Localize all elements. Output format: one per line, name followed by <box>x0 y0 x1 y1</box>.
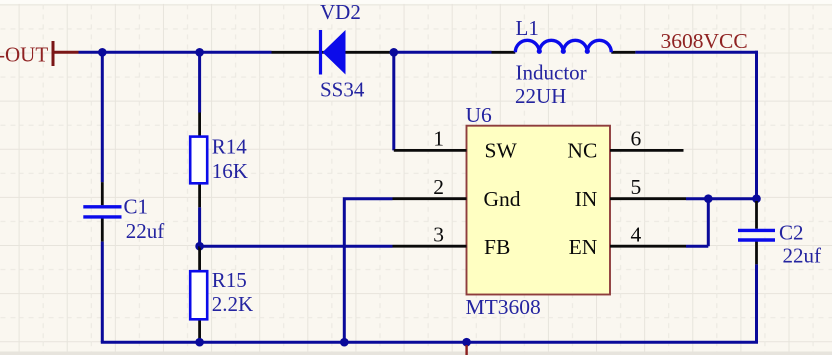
wire bottom rail <box>102 341 756 343</box>
diode VD2 cathode bar <box>319 30 322 75</box>
svg-text:L1: L1 <box>516 16 539 40</box>
svg-text:2: 2 <box>433 175 444 199</box>
inductor L1 pins (black) <box>492 51 636 54</box>
inductor L1 coil <box>515 40 611 52</box>
svg-text:R15: R15 <box>212 268 247 292</box>
node top junction (R14 branch) <box>195 48 204 57</box>
node Gnd bottom junction <box>340 338 349 347</box>
sheet bottom edge strip <box>0 352 832 355</box>
svg-text:R14: R14 <box>212 134 248 158</box>
pin 1 wire (SW, black) <box>394 149 467 152</box>
capacitor C1 plates <box>83 207 121 217</box>
wire FB: node to pin3 <box>200 245 393 248</box>
wire IN: pin5 to right vertical <box>686 197 757 200</box>
svg-text:VD2: VD2 <box>320 0 361 24</box>
wire right vertical: corner to IN node <box>755 51 758 199</box>
resistor R15 pins (black) <box>198 246 201 343</box>
svg-text:MT3608: MT3608 <box>466 295 541 319</box>
node ground tap junction <box>462 338 471 347</box>
svg-text:3: 3 <box>433 223 444 247</box>
svg-text:1: 1 <box>433 127 444 151</box>
wire SW vertical: diode node to pin1 <box>392 52 395 150</box>
node IN-VCC junction <box>752 194 761 203</box>
pin 3 wire (FB, black) <box>393 245 467 248</box>
svg-text:Inductor: Inductor <box>516 60 587 84</box>
IC U6 body <box>467 126 611 295</box>
svg-text:SS34: SS34 <box>320 77 365 101</box>
svg-text:22uf: 22uf <box>783 243 822 267</box>
svg-text:22UH: 22UH <box>515 84 566 108</box>
svg-text:C2: C2 <box>779 221 804 245</box>
inductor coil joints <box>537 49 542 54</box>
svg-text:C1: C1 <box>124 195 149 219</box>
capacitor C2 pins (black) <box>755 201 758 264</box>
pin 5 wire (IN, black) <box>610 197 686 200</box>
wire C1 branch lower <box>101 242 104 343</box>
wire C2 lower to bottom <box>755 264 758 342</box>
svg-text:-OUT: -OUT <box>0 43 48 67</box>
wire EN: pin4 to IN node <box>686 199 708 247</box>
pin 2 wire (Gnd, black) <box>393 197 467 200</box>
node R15 bottom junction <box>195 338 204 347</box>
svg-text:4: 4 <box>631 223 642 247</box>
resistor R14 pins (black) <box>198 113 201 208</box>
capacitor C1 pins (black) <box>101 182 104 242</box>
svg-text:16K: 16K <box>212 159 248 183</box>
node top-left junction (C1 branch) <box>98 48 107 57</box>
svg-text:22uf: 22uf <box>126 219 165 243</box>
node diode-SW junction <box>390 48 399 57</box>
svg-text:3608VCC: 3608VCC <box>661 29 748 53</box>
node FB junction <box>195 242 204 251</box>
wire Gnd: corner to pin2 <box>344 199 392 343</box>
svg-text:2.2K: 2.2K <box>212 292 253 316</box>
svg-text:5: 5 <box>631 175 642 199</box>
capacitor C2 plates <box>738 230 775 240</box>
svg-text:IN: IN <box>575 187 598 211</box>
svg-text:NC: NC <box>567 139 597 163</box>
wire R14 to FB node <box>198 207 201 246</box>
port -OUT stub wire <box>53 51 79 54</box>
svg-text:U6: U6 <box>466 103 493 127</box>
pin 6 wire (NC, black stub) <box>610 149 684 152</box>
diode VD2 pins (black) <box>272 51 394 54</box>
node EN-IN junction <box>704 194 713 203</box>
svg-text:FB: FB <box>484 235 510 259</box>
sheet top edge band <box>0 0 832 4</box>
wire top: diode to inductor <box>394 51 492 54</box>
svg-text:SW: SW <box>485 139 518 163</box>
diode VD2 triangle <box>323 30 346 75</box>
port -OUT bar <box>52 41 55 66</box>
svg-text:Gnd: Gnd <box>484 187 521 211</box>
wire top: port to diode anode pin <box>79 51 272 54</box>
ground stub (maroon) <box>465 345 467 355</box>
wire C1 branch upper <box>101 52 104 182</box>
wire top: inductor to right corner <box>635 51 758 54</box>
pin 4 wire (EN, black) <box>610 245 686 248</box>
svg-text:EN: EN <box>569 235 598 259</box>
svg-text:6: 6 <box>631 127 642 151</box>
wire R14 branch upper <box>198 52 201 112</box>
resistor R15 body <box>190 271 207 319</box>
resistor R14 body <box>190 137 207 184</box>
